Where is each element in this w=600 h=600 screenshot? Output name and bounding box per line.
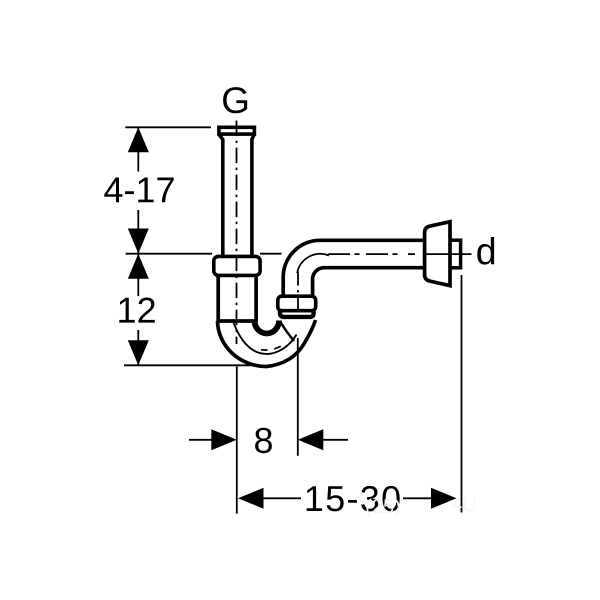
inlet pipe right chamfer	[252, 135, 254, 140]
trap centreline arc dash 2	[274, 346, 281, 349]
trap U-bend white body	[218, 320, 316, 367]
dimension 15-30: left arrow pointing left	[261, 497, 301, 499]
arrow up tip at mid extension (12)	[128, 254, 149, 279]
inlet pipe left wall	[221, 139, 225, 257]
centreline dot before cone	[408, 253, 415, 255]
dimension line 12 vertical	[137, 254, 139, 296]
inlet compression nut	[214, 256, 260, 275]
arrow down tip at bottom extension (12)	[128, 340, 149, 365]
trap right contour line	[280, 322, 294, 342]
inlet pipe top rim	[219, 127, 255, 134]
trap U-bend outer wall arc	[218, 320, 316, 367]
centreline outlet horizontal dash-dot	[328, 253, 399, 255]
elbow and outlet pipe body	[283, 240, 424, 296]
dimension 12: bottom extension line at trap bottom	[124, 364, 264, 366]
wall cone	[425, 222, 450, 286]
arrow down tip at mid extension	[128, 229, 149, 254]
label G	[223, 87, 247, 113]
inlet pipe right wall	[250, 139, 254, 257]
centreline right leg dash-dot	[297, 272, 299, 323]
dimension 8: left arrow outside pointing right	[189, 439, 214, 441]
dimension 15-30: right arrow pointing right	[403, 497, 435, 499]
outlet pipe bottom wall and elbow inner fillet	[313, 268, 424, 297]
label d	[477, 237, 494, 265]
dimension: mid extension line at outlet axis	[126, 253, 212, 255]
wall spigot	[446, 240, 461, 268]
dimension line 4-17 vertical	[137, 127, 139, 171]
faint watermark	[367, 499, 400, 518]
centreline inlet vertical dash-dot	[236, 121, 238, 344]
arrow up tip at top extension	[128, 127, 149, 152]
label 8	[255, 428, 272, 454]
dimension 8: right arrow outside pointing left	[321, 439, 348, 441]
elbow outer wall and outlet pipe top wall	[283, 240, 424, 296]
extension line wall connection down	[461, 275, 463, 513]
union nut	[278, 296, 316, 311]
inlet sleeve left wall	[216, 277, 220, 322]
trap thin contour arc	[234, 323, 297, 354]
inlet pipe left chamfer	[219, 135, 223, 140]
extension line outlet leg axis down	[297, 338, 299, 456]
trap centreline arc dash 1	[261, 349, 268, 351]
inlet sleeve right wall	[254, 277, 258, 322]
label 15-30	[307, 486, 400, 512]
inlet sleeve body	[216, 277, 258, 323]
dimension 4-17: top extension line	[125, 126, 211, 128]
inlet sleeve bottom edge	[216, 319, 258, 323]
extension line inlet axis down	[236, 367, 238, 514]
union nut skirt	[280, 310, 314, 317]
elbow thin contour arc	[297, 254, 329, 273]
centreline through cone solid	[424, 253, 472, 255]
trap inner eye outline	[255, 321, 280, 334]
label 12	[119, 298, 155, 323]
inlet pipe body	[221, 134, 253, 256]
label 4-17	[104, 178, 173, 203]
